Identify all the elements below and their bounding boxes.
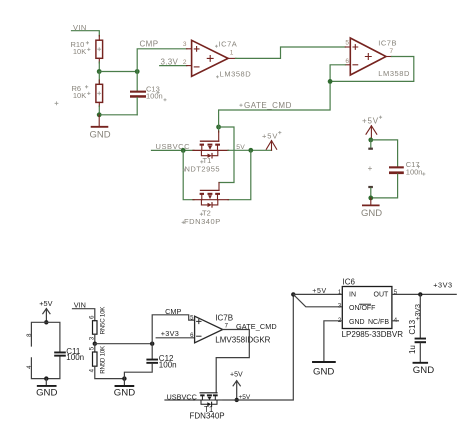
svg-text:C13: C13	[408, 319, 417, 334]
svg-text:+3V3: +3V3	[415, 304, 422, 321]
svg-text:1: 1	[230, 50, 234, 57]
svg-text:GATE_CMD: GATE_CMD	[244, 101, 292, 110]
ground GND top right	[370, 198, 372, 205]
node C12 junction	[150, 342, 154, 346]
node bottom junction right	[368, 196, 373, 201]
node CMP junction	[135, 69, 140, 74]
svg-text:7: 7	[390, 48, 394, 55]
stray origin mark	[55, 102, 58, 105]
capacitor C13 1u	[419, 294, 421, 337]
svg-text:GND: GND	[36, 388, 57, 399]
svg-text:IC7B: IC7B	[378, 38, 397, 47]
node +5V junction	[235, 398, 239, 402]
pin R10 bottom	[98, 58, 100, 63]
svg-text:GND: GND	[114, 388, 135, 399]
transistor T2 FDN340P	[193, 190, 229, 207]
op-amp IC7B bottom	[195, 316, 223, 343]
wire VIN to R10	[72, 31, 100, 36]
pin IC7B 6	[345, 64, 350, 66]
node divider junction	[97, 69, 102, 74]
wire power part lower	[31, 356, 60, 378]
svg-text:+5V: +5V	[262, 132, 278, 141]
origin tick marks	[85, 42, 425, 224]
svg-text:RN5C 10K: RN5C 10K	[100, 306, 107, 335]
svg-text:CMP: CMP	[165, 307, 181, 316]
svg-text:+5V: +5V	[362, 116, 379, 125]
node junction bottom	[44, 376, 48, 380]
polarized element bottom pin	[368, 186, 373, 188]
transistor T1 FDN340P bottom	[194, 393, 223, 407]
svg-text:GND: GND	[349, 319, 365, 326]
node bottom junction	[97, 112, 102, 117]
wire power rails IC power part	[31, 322, 60, 351]
wire USBVCC to T1	[152, 149, 195, 151]
wire IC7B out to T1 gate	[216, 330, 249, 393]
svg-text:LP2985-33DBVR: LP2985-33DBVR	[342, 330, 404, 339]
svg-text:100n: 100n	[406, 168, 423, 177]
svg-text:+3V3: +3V3	[161, 329, 179, 338]
pin NC/FB stub	[392, 320, 399, 322]
svg-text:100n: 100n	[146, 92, 163, 101]
wire junction to IN	[293, 293, 342, 295]
svg-text:NDT2955: NDT2955	[185, 164, 221, 173]
ground GND right	[414, 362, 428, 364]
wire OUT to +3V3	[392, 293, 456, 295]
svg-text:IC6: IC6	[343, 278, 356, 287]
svg-text:+3V3: +3V3	[433, 281, 452, 290]
node out junction	[418, 292, 422, 296]
svg-text:5: 5	[345, 39, 349, 46]
node 5V junction	[248, 148, 253, 153]
node feedback junction	[328, 79, 333, 84]
IC U IC6 box	[342, 287, 392, 329]
pin R10 top	[98, 36, 100, 41]
ground GND top-left	[98, 115, 100, 126]
wire gate junction to T1 gate	[218, 125, 220, 132]
svg-text:GND: GND	[361, 208, 382, 219]
svg-text:LM358D: LM358D	[220, 70, 252, 79]
ground GND mid-left	[123, 379, 125, 386]
resistor RN5C	[93, 321, 98, 335]
wire mid junction to C12	[95, 343, 152, 345]
op-amp IC7B	[350, 38, 386, 75]
wire USBVCC down to T2	[183, 150, 194, 199]
svg-text:IC7A: IC7A	[219, 39, 238, 48]
node mid junction	[93, 342, 97, 346]
resistor RN5D	[94, 344, 96, 352]
svg-text:100n: 100n	[66, 353, 84, 362]
svg-text:GND: GND	[90, 130, 111, 141]
polarized element left branch top pin	[370, 140, 372, 147]
supply +5V arrow (top right)	[366, 126, 377, 140]
node IC6 in junction	[291, 292, 295, 296]
wire gate junction to T2 gate	[219, 127, 234, 183]
svg-text:FDN340P: FDN340P	[184, 217, 221, 226]
capacitor C17	[389, 166, 404, 168]
svg-text:GND: GND	[413, 365, 434, 376]
wire bottom to C13	[99, 114, 137, 116]
svg-text:NC/FB: NC/FB	[368, 319, 389, 326]
wire diagonal to ON/OFF	[293, 294, 342, 306]
capacitor C12	[151, 344, 153, 359]
svg-text:FDN340P: FDN340P	[190, 412, 225, 421]
wire C12 bottom to GND junction	[124, 364, 152, 379]
transistor T1 NDT2955	[193, 141, 229, 158]
wire RN5C to junction	[94, 334, 96, 344]
svg-text:+5V: +5V	[312, 288, 326, 295]
wire pin6 to feedback node	[330, 65, 345, 82]
svg-text:+5V: +5V	[230, 371, 243, 378]
svg-text:100n: 100n	[159, 360, 177, 369]
svg-text:+: +	[368, 164, 373, 173]
resistor R6	[96, 84, 103, 102]
svg-text:IN: IN	[349, 292, 356, 299]
wire junction up to CMP	[137, 49, 187, 72]
wire VIN to RN5C	[73, 309, 95, 321]
pin IC7A 3	[187, 48, 192, 50]
wire IC7B feedback	[219, 57, 414, 126]
svg-text:GND: GND	[313, 367, 334, 378]
node GND junction	[122, 376, 126, 380]
pin IC7B 5	[345, 46, 350, 48]
wire RN5D to GND junction	[95, 366, 125, 378]
svg-text:6: 6	[345, 58, 349, 65]
wire GND pin to ground	[324, 321, 342, 362]
node CMP wire	[152, 315, 194, 344]
wire IC7A out to IC7B pin5	[236, 47, 346, 58]
pin IC7A 1 out	[228, 57, 236, 59]
svg-text:3: 3	[183, 41, 187, 48]
op-amp IC7A	[192, 40, 229, 76]
node USBVCC junction	[181, 148, 186, 153]
svg-text:5V: 5V	[236, 144, 245, 151]
pin R6 top	[98, 72, 100, 85]
pin IC7B 7 out	[386, 56, 392, 58]
ground GND bottom-left	[45, 379, 47, 386]
wire divider to C13 top	[99, 71, 137, 73]
svg-text:10K: 10K	[73, 91, 86, 100]
wire T1 to IC6	[223, 294, 293, 400]
wire 5V rail down to T2	[228, 150, 251, 199]
node +5V junction top right	[368, 138, 373, 143]
svg-text:OUT: OUT	[374, 292, 390, 299]
wire 3.3V to IC7A pin2	[160, 65, 187, 67]
svg-text:+5V: +5V	[39, 299, 52, 308]
pin R6 bottom / wire to GND node	[98, 102, 100, 106]
svg-text:2: 2	[183, 59, 187, 66]
svg-text:1u: 1u	[408, 345, 417, 354]
capacitor C11	[54, 352, 66, 354]
wire T1 to 5V rail	[228, 149, 272, 151]
svg-text:10K: 10K	[73, 47, 86, 56]
svg-text:ON/OFF: ON/OFF	[349, 305, 375, 312]
pin IC7A 2	[187, 65, 192, 67]
node gate junction	[216, 125, 221, 130]
wire USBVCC to T1	[165, 399, 194, 401]
node junction top	[44, 320, 48, 324]
svg-text:RN5D 10K: RN5D 10K	[100, 345, 107, 374]
wire R10 to node	[98, 62, 100, 72]
wire +5V block top	[371, 140, 398, 167]
ground GND mid	[313, 361, 335, 363]
svg-text:LM358D: LM358D	[378, 69, 410, 78]
svg-text:IC7B: IC7B	[215, 314, 233, 323]
supply +5V arrow (middle)	[266, 141, 276, 151]
capacitor C13	[136, 72, 138, 91]
resistor R10	[96, 40, 103, 58]
svg-text:CMP: CMP	[140, 40, 159, 49]
svg-text:LMV358IDGKR: LMV358IDGKR	[215, 336, 270, 345]
